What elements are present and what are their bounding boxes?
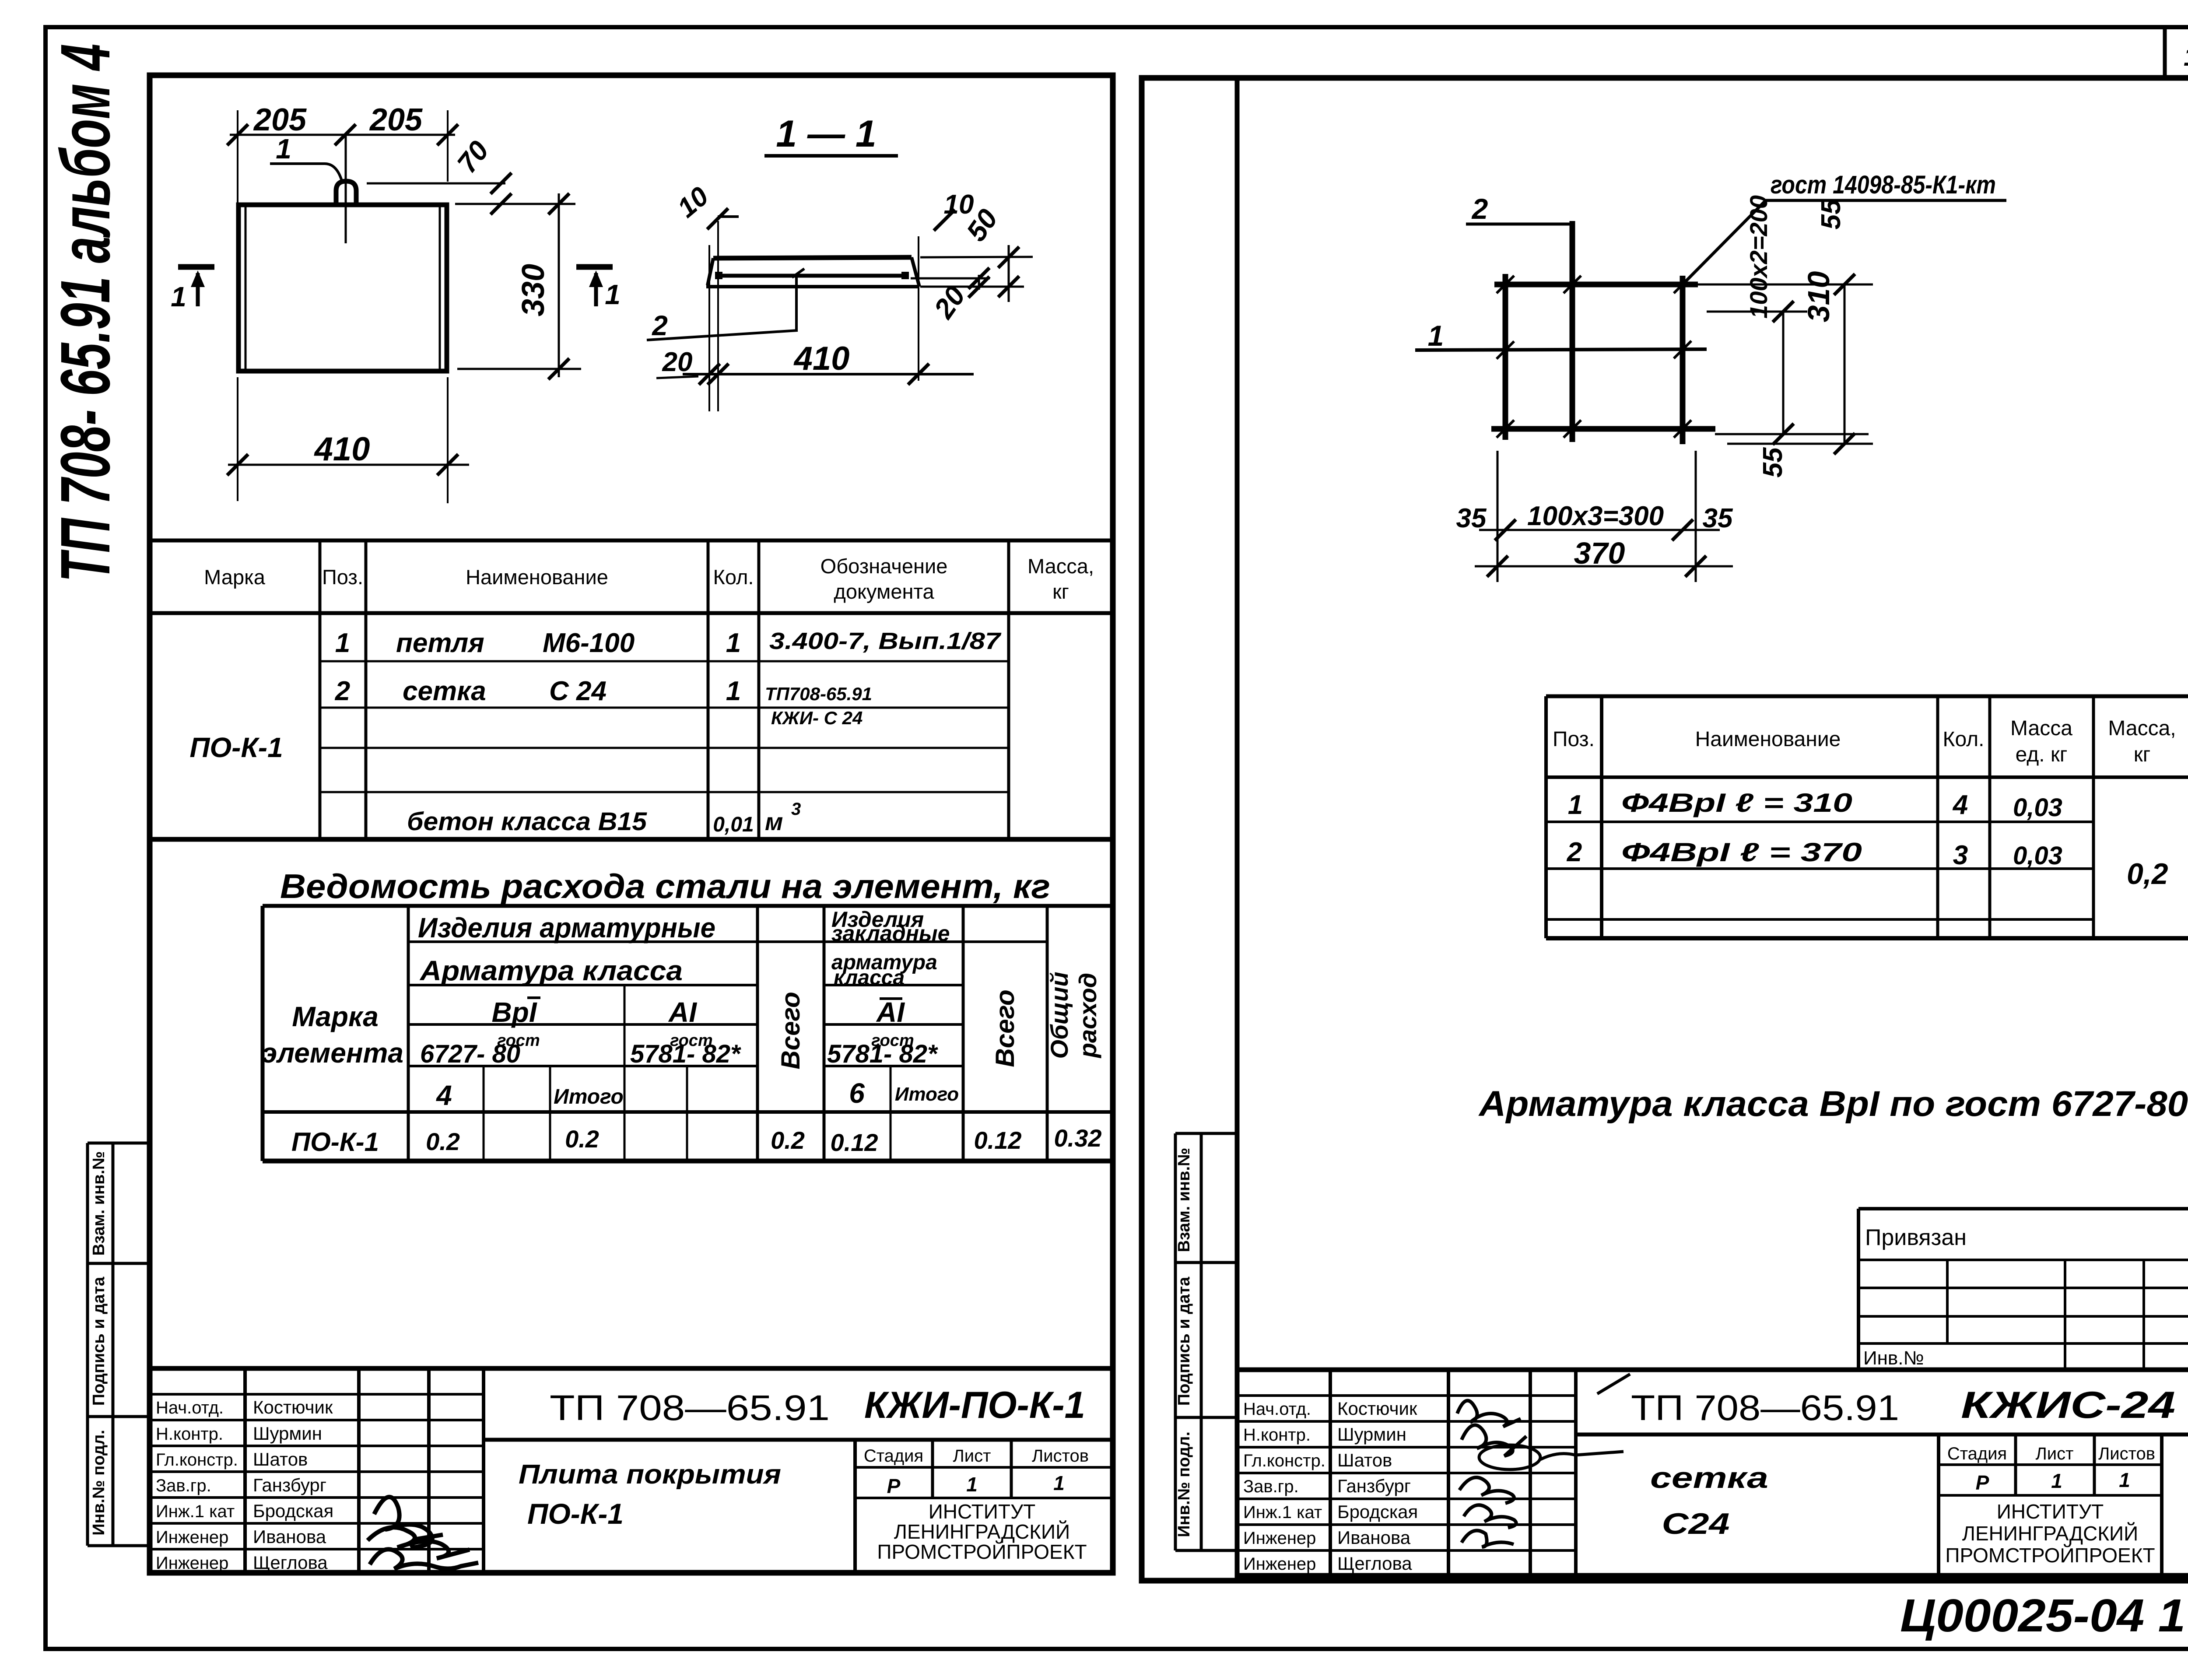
svg-text:кг: кг <box>1052 580 1069 603</box>
left sheet frame <box>150 75 1113 1573</box>
svg-text:Лист: Лист <box>2036 1444 2074 1463</box>
dim 410 (plan) <box>228 464 469 466</box>
svg-text:100х2=200: 100х2=200 <box>1745 195 1772 319</box>
svg-text:Арматура класса ВрI по гост: Арматура класса ВрI по гост 6727-80 <box>1478 1084 2188 1124</box>
svg-text:Бродская: Бродская <box>253 1501 333 1521</box>
svg-text:1: 1 <box>726 676 741 706</box>
svg-text:Ф4ВрI ℓ = 370: Ф4ВрI ℓ = 370 <box>1621 838 1862 867</box>
svg-text:Итого: Итого <box>554 1085 624 1108</box>
svg-text:ТП708-65.91: ТП708-65.91 <box>765 684 872 704</box>
svg-text:Ведомость расхода стали на: Ведомость расхода стали на элемент, кг <box>280 867 1050 905</box>
svg-text:ТП 708- 65.91 альбом 4: ТП 708- 65.91 альбом 4 <box>46 44 124 582</box>
svg-text:КЖИС-24: КЖИС-24 <box>1961 1384 2175 1426</box>
svg-text:Гл.констр.: Гл.констр. <box>1243 1451 1325 1470</box>
svg-text:М6-100: М6-100 <box>543 628 635 658</box>
svg-text:Р: Р <box>887 1475 901 1498</box>
svg-text:Марка: Марка <box>204 565 266 589</box>
svg-text:0.12: 0.12 <box>831 1129 878 1156</box>
svg-text:Масса,: Масса, <box>1027 554 1094 578</box>
svg-text:Итого: Итого <box>895 1084 959 1105</box>
plan view plate outline <box>238 205 447 371</box>
svg-text:Инж.1 кат: Инж.1 кат <box>156 1502 235 1521</box>
svg-text:Ганзбург: Ганзбург <box>253 1475 326 1495</box>
svg-text:2: 2 <box>1567 837 1582 867</box>
svg-text:Шурмин: Шурмин <box>253 1423 322 1444</box>
right sheet inner left margin line <box>1235 78 1240 1581</box>
mesh horizontal top bar <box>1494 282 1698 288</box>
svg-text:ПО-К-1: ПО-К-1 <box>189 732 283 763</box>
mesh horizontal bottom bar <box>1491 426 1715 432</box>
mesh right dims <box>1689 284 1873 286</box>
svg-text:Листов: Листов <box>1032 1446 1089 1466</box>
signatures left <box>374 1497 443 1547</box>
svg-text:Иванова: Иванова <box>253 1526 326 1547</box>
svg-text:205: 205 <box>253 102 307 137</box>
svg-text:4: 4 <box>1952 790 1968 820</box>
svg-text:Инв.№ подл.: Инв.№ подл. <box>90 1430 108 1536</box>
svg-text:петля: петля <box>396 628 484 658</box>
section plate profile <box>713 257 912 258</box>
svg-text:Кол.: Кол. <box>713 565 754 589</box>
svg-text:Масса: Масса <box>2010 717 2072 740</box>
svg-text:расход: расход <box>1074 973 1101 1059</box>
svg-text:2: 2 <box>335 676 350 706</box>
svg-text:ЛЕНИНГРАДСКИЙ: ЛЕНИНГРАДСКИЙ <box>1962 1522 2138 1545</box>
dim 330 <box>455 203 575 205</box>
left title block <box>150 1366 1113 1371</box>
svg-text:Инв.№: Инв.№ <box>1863 1347 1924 1369</box>
svg-text:Лист: Лист <box>953 1446 991 1466</box>
svg-text:Наименование: Наименование <box>1695 728 1841 751</box>
svg-text:1: 1 <box>1053 1472 1065 1494</box>
svg-text:0,01: 0,01 <box>713 813 754 836</box>
section dim 50 <box>920 257 1033 257</box>
svg-text:Ганзбург: Ганзбург <box>1337 1476 1411 1496</box>
svg-text:0.2: 0.2 <box>426 1128 460 1155</box>
svg-text:документа: документа <box>834 580 934 603</box>
svg-text:Нач.отд.: Нач.отд. <box>1243 1399 1311 1419</box>
svg-text:1 — 1: 1 — 1 <box>776 113 876 155</box>
svg-text:Стадия: Стадия <box>1947 1444 2007 1463</box>
svg-text:ПРОМСТРОЙПРОЕКТ: ПРОМСТРОЙПРОЕКТ <box>877 1540 1087 1563</box>
mesh line in section (pos.2) <box>718 274 909 278</box>
svg-text:Шатов: Шатов <box>1337 1450 1392 1470</box>
svg-text:1: 1 <box>966 1473 978 1496</box>
svg-text:Ц00025-04 17: Ц00025-04 17 <box>1900 1590 2188 1641</box>
svg-text:кг: кг <box>2134 743 2151 766</box>
page number box 16 <box>2163 29 2167 79</box>
svg-text:2: 2 <box>652 310 668 341</box>
svg-text:Взам. инв.№: Взам. инв.№ <box>1175 1148 1193 1252</box>
svg-text:55: 55 <box>1758 447 1788 477</box>
svg-text:Инженер: Инженер <box>1243 1529 1316 1548</box>
svg-text:20: 20 <box>662 347 693 377</box>
section dim 20 right <box>911 277 990 280</box>
svg-text:0,03: 0,03 <box>2013 793 2062 822</box>
dim 205/205 <box>230 134 455 136</box>
svg-text:Наименование: Наименование <box>466 565 608 589</box>
svg-text:Масса,: Масса, <box>2108 717 2176 740</box>
svg-text:3: 3 <box>1953 840 1968 870</box>
mesh vertical bar 1 <box>1503 274 1508 440</box>
svg-text:2: 2 <box>1471 193 1488 225</box>
svg-text:1: 1 <box>726 628 741 658</box>
svg-text:ВрI: ВрI <box>491 996 537 1028</box>
right parts table <box>1546 694 2188 698</box>
svg-text:Бродская: Бродская <box>1337 1501 1418 1522</box>
privyazan table <box>1857 1209 1860 1369</box>
svg-text:1: 1 <box>1428 319 1444 352</box>
svg-text:Гл.констр.: Гл.констр. <box>156 1450 238 1470</box>
section mark left <box>178 264 214 270</box>
steel table frame <box>261 906 265 1161</box>
svg-text:35: 35 <box>1703 503 1733 533</box>
svg-text:1: 1 <box>335 628 350 658</box>
svg-text:гост 14098-85-К1-кт: гост 14098-85-К1-кт <box>1771 171 1996 199</box>
svg-text:Инж.1 кат: Инж.1 кат <box>1243 1503 1322 1522</box>
svg-text:0.2: 0.2 <box>565 1125 599 1153</box>
svg-text:3.400-7, Вып.1/87: 3.400-7, Вып.1/87 <box>769 628 1002 654</box>
svg-text:Инв.№ подл.: Инв.№ подл. <box>1175 1431 1193 1537</box>
svg-text:0.32: 0.32 <box>1054 1124 1102 1152</box>
svg-text:Подпись и дата: Подпись и дата <box>90 1277 108 1406</box>
svg-text:ЛЕНИНГРАДСКИЙ: ЛЕНИНГРАДСКИЙ <box>894 1520 1070 1543</box>
svg-text:1: 1 <box>605 279 621 310</box>
mesh vertical bar 2 (pos.2) <box>1570 221 1575 442</box>
svg-text:410: 410 <box>793 340 850 377</box>
svg-text:Плита покрытия: Плита покрытия <box>519 1459 781 1490</box>
svg-text:Нач.отд.: Нач.отд. <box>156 1398 224 1417</box>
specification table <box>150 539 1113 543</box>
svg-text:Щеглова: Щеглова <box>253 1552 328 1573</box>
svg-text:Щеглова: Щеглова <box>1337 1553 1412 1574</box>
svg-text:класса: класса <box>834 966 905 989</box>
svg-text:6: 6 <box>849 1077 865 1109</box>
svg-text:Зав.гр.: Зав.гр. <box>156 1476 211 1495</box>
svg-text:330: 330 <box>516 264 551 316</box>
svg-text:1: 1 <box>2051 1470 2062 1492</box>
svg-text:бетон класса В15: бетон класса В15 <box>407 807 647 836</box>
svg-text:АI: АI <box>876 996 905 1028</box>
svg-text:1: 1 <box>276 133 291 165</box>
left sheet margin strip <box>86 1143 89 1546</box>
svg-text:Всего: Всего <box>990 989 1020 1067</box>
svg-text:Кол.: Кол. <box>1943 728 1985 751</box>
svg-text:Всего: Всего <box>776 992 805 1069</box>
svg-text:4: 4 <box>435 1080 452 1111</box>
section dim 410 <box>683 373 974 375</box>
plan inner right line <box>439 207 441 369</box>
svg-text:Листов: Листов <box>2098 1444 2155 1463</box>
svg-text:Подпись и дата: Подпись и дата <box>1175 1277 1193 1406</box>
svg-text:Взам. инв.№: Взам. инв.№ <box>90 1151 108 1256</box>
svg-text:ТП 708—65.91: ТП 708—65.91 <box>1631 1388 1899 1428</box>
svg-text:м: м <box>765 808 783 835</box>
plan center extension line <box>345 135 347 243</box>
dim 70 <box>367 182 505 185</box>
svg-text:сетка: сетка <box>1650 1461 1768 1494</box>
svg-text:16: 16 <box>2184 42 2188 71</box>
svg-text:ИНСТИТУТ: ИНСТИТУТ <box>929 1500 1036 1523</box>
svg-text:Инженер: Инженер <box>1243 1554 1316 1574</box>
mesh vertical bar 3 <box>1680 276 1686 444</box>
svg-text:АI: АI <box>668 996 697 1028</box>
svg-text:ПО-К-1: ПО-К-1 <box>527 1498 624 1530</box>
svg-text:Костючик: Костючик <box>1337 1398 1417 1419</box>
svg-text:Шурмин: Шурмин <box>1337 1424 1406 1445</box>
svg-text:55: 55 <box>1816 199 1846 229</box>
svg-text:1: 1 <box>1568 790 1583 820</box>
svg-text:КЖИ- С 24: КЖИ- С 24 <box>771 708 863 728</box>
plan inner left line <box>245 207 247 369</box>
svg-text:0,03: 0,03 <box>2013 842 2062 870</box>
svg-text:Общий: Общий <box>1045 972 1073 1059</box>
right sheet margin strip <box>1174 1133 1177 1550</box>
right sheet frame <box>1142 78 2188 1581</box>
svg-text:100х3=300: 100х3=300 <box>1527 501 1664 531</box>
svg-text:0.2: 0.2 <box>771 1126 805 1154</box>
svg-text:ПРОМСТРОЙПРОЕКТ: ПРОМСТРОЙПРОЕКТ <box>1945 1544 2155 1567</box>
svg-text:5781- 82*: 5781- 82* <box>630 1040 741 1068</box>
svg-text:Н.контр.: Н.контр. <box>1243 1425 1311 1445</box>
svg-text:Привязан: Привязан <box>1865 1225 1967 1250</box>
svg-text:ПО-К-1: ПО-К-1 <box>291 1127 379 1157</box>
svg-text:Зав.гр.: Зав.гр. <box>1243 1477 1299 1496</box>
svg-text:КЖИ-ПО-К-1: КЖИ-ПО-К-1 <box>864 1384 1085 1426</box>
svg-text:0.12: 0.12 <box>974 1126 1022 1154</box>
svg-text:1: 1 <box>2119 1469 2130 1491</box>
svg-text:Н.контр.: Н.контр. <box>156 1424 223 1444</box>
svg-text:0,2: 0,2 <box>2127 857 2168 891</box>
svg-text:Стадия: Стадия <box>864 1446 923 1466</box>
svg-text:410: 410 <box>314 431 370 468</box>
svg-text:Марка: Марка <box>292 1001 379 1032</box>
svg-text:310: 310 <box>1802 271 1836 323</box>
svg-text:Арматура класса: Арматура класса <box>419 955 683 986</box>
svg-text:Иванова: Иванова <box>1337 1527 1411 1548</box>
right title block <box>1237 1368 2188 1372</box>
svg-text:Костючик: Костючик <box>253 1397 333 1417</box>
mesh middle wire (pos.1) <box>1415 349 1707 350</box>
svg-text:Инженер: Инженер <box>156 1528 228 1547</box>
svg-text:Шатов: Шатов <box>253 1449 308 1470</box>
svg-text:6727- 80: 6727- 80 <box>420 1040 520 1068</box>
section mark right <box>576 264 613 270</box>
svg-text:1: 1 <box>171 281 186 312</box>
svg-text:5781- 82*: 5781- 82* <box>827 1040 938 1068</box>
svg-text:370: 370 <box>1574 536 1625 570</box>
svg-text:ед. кг: ед. кг <box>2016 743 2068 766</box>
svg-text:Р: Р <box>1976 1471 1989 1494</box>
svg-text:Поз.: Поз. <box>322 565 363 589</box>
svg-text:Изделия арматурные: Изделия арматурные <box>418 912 715 943</box>
svg-text:Инженер: Инженер <box>156 1554 228 1573</box>
svg-text:Обозначение: Обозначение <box>820 554 948 578</box>
svg-text:элемента: элемента <box>262 1037 403 1069</box>
svg-text:ТП 708—65.91: ТП 708—65.91 <box>550 1388 830 1428</box>
svg-text:сетка: сетка <box>403 676 486 706</box>
svg-text:ИНСТИТУТ: ИНСТИТУТ <box>1997 1500 2104 1523</box>
svg-text:205: 205 <box>369 102 423 137</box>
svg-text:35: 35 <box>1456 503 1487 533</box>
svg-text:С24: С24 <box>1662 1507 1730 1540</box>
svg-text:Поз.: Поз. <box>1553 728 1595 751</box>
svg-text:С 24: С 24 <box>549 676 607 706</box>
svg-text:3: 3 <box>791 800 801 819</box>
svg-text:закладные: закладные <box>831 921 950 946</box>
svg-text:Ф4ВрI ℓ = 310: Ф4ВрI ℓ = 310 <box>1621 788 1852 817</box>
signatures right <box>1457 1401 1521 1427</box>
lifting loop <box>336 181 356 204</box>
mesh bottom dims <box>1497 451 1499 582</box>
